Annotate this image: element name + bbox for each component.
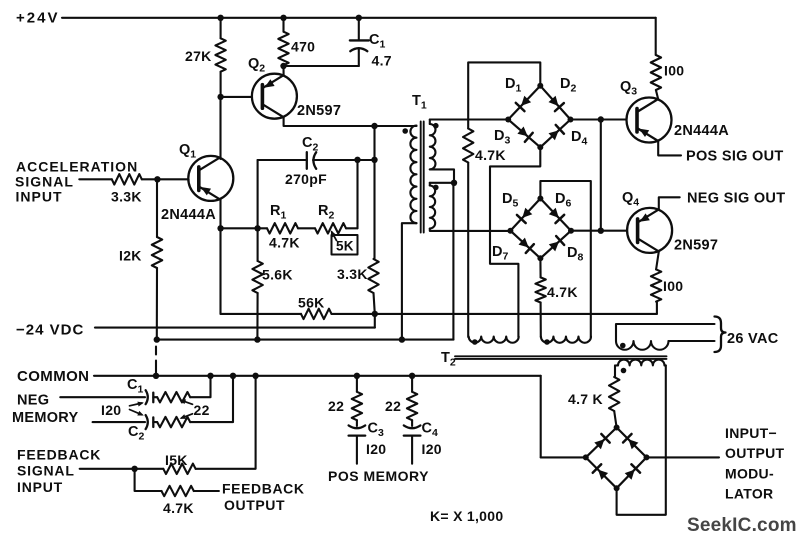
- svg-text:K= X 1,000: K= X 1,000: [430, 508, 503, 524]
- svg-text:2N597: 2N597: [674, 238, 718, 254]
- svg-text:LATOR: LATOR: [725, 486, 773, 502]
- svg-text:22: 22: [385, 398, 401, 414]
- svg-text:NEG: NEG: [17, 393, 49, 409]
- svg-text:22: 22: [328, 398, 344, 414]
- svg-text:INPUT: INPUT: [17, 479, 63, 495]
- svg-text:3.3K: 3.3K: [337, 266, 368, 282]
- svg-text:MODU-: MODU-: [725, 466, 774, 482]
- svg-text:4.7 K: 4.7 K: [568, 391, 603, 407]
- svg-text:4.7K: 4.7K: [269, 235, 300, 251]
- svg-text:56K: 56K: [298, 295, 325, 311]
- svg-text:5K: 5K: [336, 239, 354, 254]
- svg-text:2N597: 2N597: [297, 103, 341, 119]
- svg-text:+24V: +24V: [16, 10, 59, 27]
- svg-text:FEEDBACK: FEEDBACK: [222, 481, 305, 497]
- svg-text:5.6K: 5.6K: [262, 267, 293, 283]
- svg-text:4.7K: 4.7K: [547, 284, 578, 300]
- svg-text:INPUT: INPUT: [16, 189, 63, 205]
- svg-text:27K: 27K: [185, 48, 212, 64]
- svg-text:470: 470: [291, 39, 315, 55]
- svg-text:I00: I00: [664, 63, 684, 79]
- svg-text:SeekIC.com: SeekIC.com: [687, 515, 797, 536]
- svg-text:4.7K: 4.7K: [475, 147, 506, 163]
- svg-text:22: 22: [194, 402, 210, 418]
- svg-text:SIGNAL: SIGNAL: [17, 463, 75, 479]
- svg-text:ACCELERATION: ACCELERATION: [16, 159, 138, 175]
- svg-text:4.7K: 4.7K: [163, 500, 194, 516]
- svg-text:2N444A: 2N444A: [161, 207, 216, 223]
- svg-text:COMMON: COMMON: [17, 368, 89, 385]
- svg-text:OUTPUT: OUTPUT: [725, 445, 784, 461]
- svg-text:26 VAC: 26 VAC: [727, 331, 779, 347]
- svg-text:OUTPUT: OUTPUT: [224, 497, 285, 513]
- svg-text:−24 VDC: −24 VDC: [16, 322, 84, 339]
- svg-text:I2K: I2K: [119, 248, 142, 264]
- svg-text:2N444A: 2N444A: [674, 123, 729, 139]
- svg-text:I5K: I5K: [165, 452, 188, 468]
- svg-text:3.3K: 3.3K: [111, 189, 142, 205]
- svg-text:I20: I20: [101, 402, 121, 418]
- svg-text:FEEDBACK: FEEDBACK: [17, 447, 101, 463]
- svg-text:INPUT−: INPUT−: [725, 425, 777, 441]
- svg-text:I20: I20: [366, 441, 386, 457]
- svg-text:SIGNAL: SIGNAL: [15, 174, 74, 190]
- svg-text:POS SIG OUT: POS SIG OUT: [686, 149, 784, 165]
- svg-text:4.7: 4.7: [372, 53, 392, 69]
- svg-text:NEG SIG OUT: NEG SIG OUT: [687, 191, 785, 207]
- svg-text:POS MEMORY: POS MEMORY: [328, 468, 429, 484]
- svg-text:I20: I20: [422, 441, 442, 457]
- svg-text:270pF: 270pF: [285, 171, 327, 187]
- svg-text:I00: I00: [663, 278, 683, 294]
- svg-text:MEMORY: MEMORY: [12, 410, 79, 426]
